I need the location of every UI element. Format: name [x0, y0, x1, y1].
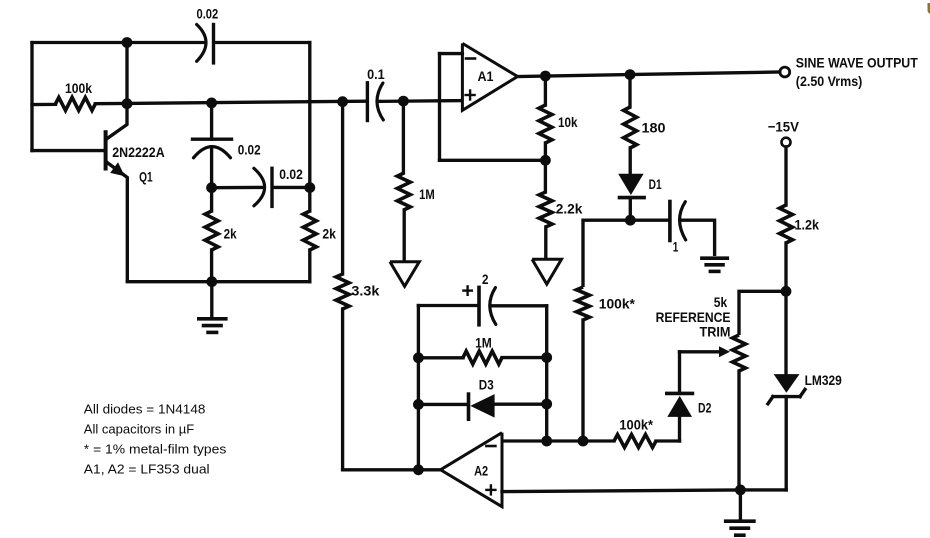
- wire cap1 to ground corner: [680, 220, 714, 256]
- potentiometer R11 5k body: [733, 335, 746, 371]
- resistor R9 100k*: [577, 287, 590, 320]
- node collector-cap junction: [122, 37, 133, 48]
- wire -15V to 1.2k: [784, 147, 787, 205]
- diode D2 triangle: [667, 396, 692, 417]
- node A2 output feedback tap: [413, 464, 424, 475]
- resistor R12 100k*: [614, 435, 656, 448]
- zener LM329 triangle: [774, 374, 800, 393]
- svg-text:LM329: LM329: [805, 373, 842, 388]
- transistor Q1 emitter lead: [106, 162, 128, 282]
- svg-text:100k: 100k: [65, 81, 92, 96]
- resistor R1 100k: [56, 97, 96, 110]
- wire 2.2k top lead: [544, 160, 547, 192]
- svg-text:2.2k: 2.2k: [556, 202, 583, 217]
- transistor Q1 collector lead: [106, 104, 127, 140]
- op-amp A2 triangle: [441, 433, 503, 507]
- wire feedback drop to series cap node: [308, 43, 311, 188]
- wire pot wiper line: [680, 350, 721, 353]
- resistor R5 1M: [397, 173, 410, 210]
- ground G1 bars: [199, 317, 226, 321]
- wire series cap left lead: [212, 186, 264, 190]
- wire 2k left bottom lead: [210, 250, 213, 282]
- svg-text:2k: 2k: [322, 227, 336, 242]
- svg-text:100k*: 100k*: [599, 297, 636, 312]
- svg-text:100k*: 100k*: [619, 418, 653, 433]
- svg-text:0.02: 0.02: [279, 167, 303, 182]
- wire D1 net to 100k* corner: [583, 220, 630, 287]
- wire reference node to LM329: [784, 291, 787, 374]
- wire A2 minus rail: [502, 439, 614, 442]
- svg-text:D2: D2: [698, 401, 712, 416]
- resistor R8 180: [624, 107, 637, 148]
- wire D3 row right: [495, 403, 547, 406]
- wire reference node to pot: [739, 291, 786, 335]
- wire A2 output: [343, 468, 441, 471]
- pot wiper arrowhead: [719, 346, 730, 357]
- capacitor C5 1 curved plate: [680, 202, 686, 240]
- wire 1M row right: [502, 356, 547, 359]
- wire 3.3k bottom lead: [341, 309, 344, 470]
- wire ground stem Q1: [210, 282, 213, 318]
- ground G4 bars: [702, 256, 727, 260]
- resistor R7 2.2k: [539, 192, 552, 227]
- capacitor C1 0.02 curved plate: [197, 25, 206, 62]
- wire wiper to D2 drop: [678, 352, 681, 394]
- svg-text:D1: D1: [649, 177, 662, 192]
- ground G5 bars: [726, 519, 754, 523]
- wire 180 top lead: [628, 75, 631, 107]
- capacitor C1 0.02 flat plate: [212, 25, 215, 63]
- node 1M left: [413, 352, 424, 363]
- svg-text:0.02: 0.02: [197, 7, 219, 22]
- svg-text:180: 180: [642, 121, 666, 136]
- svg-text:* = 1% metal-film types: * = 1% metal-film types: [84, 442, 227, 457]
- zener LM329 cathode bar: [768, 389, 805, 403]
- terminal -15V circle: [782, 138, 791, 147]
- wire pot bottom lead: [737, 371, 740, 490]
- wire ground rail to LM329 corner: [740, 488, 786, 491]
- resistor R10 1.2k: [780, 205, 793, 243]
- wire shunt cap top lead: [210, 103, 213, 139]
- node D1 cathode net: [625, 215, 636, 226]
- diode D2 cathode bar: [667, 392, 693, 396]
- wire D1 to node: [629, 198, 632, 221]
- op-amp A1 triangle: [462, 43, 517, 110]
- diode D1 cathode bar: [620, 196, 645, 200]
- capacitor C4 0.1 flat plate: [366, 83, 369, 121]
- wire feedback top row left: [418, 304, 477, 307]
- ground G2 arrow: [390, 262, 419, 287]
- wire feedback right rail: [545, 306, 548, 441]
- capacitor C2 0.02 curved plate: [194, 147, 231, 158]
- svg-text:1.2k: 1.2k: [795, 218, 820, 233]
- transistor Q1 emitter arrow: [110, 162, 125, 176]
- svg-text:0.1: 0.1: [367, 67, 385, 82]
- svg-text:A1: A1: [478, 69, 494, 84]
- svg-text:1M: 1M: [419, 187, 435, 202]
- node D3 left: [413, 399, 424, 410]
- terminal output circle: [780, 67, 790, 77]
- wire 10k top lead: [544, 76, 547, 105]
- op-amp A2 minus sign: [486, 445, 495, 448]
- svg-text:2k: 2k: [224, 227, 237, 242]
- svg-text:A1, A2 = LF353 dual: A1, A2 = LF353 dual: [84, 462, 210, 477]
- svg-text:1M: 1M: [475, 336, 492, 351]
- capacitor C2 0.02 flat plate: [193, 137, 232, 140]
- resistor R2 2k: [205, 211, 218, 250]
- svg-text:SINE WAVE OUTPUT: SINE WAVE OUTPUT: [796, 56, 919, 71]
- svg-text:All capacitors in µF: All capacitors in µF: [84, 422, 194, 437]
- svg-text:2N2222A: 2N2222A: [112, 145, 165, 160]
- node reference top: [781, 286, 792, 297]
- svg-text:1: 1: [673, 240, 679, 255]
- wire top feedback rail right segment: [215, 41, 310, 44]
- wire A1 feedback to divider: [440, 159, 546, 162]
- wire shunt cap bottom lead: [210, 148, 213, 188]
- svg-text:All diodes = 1N4148: All diodes = 1N4148: [84, 402, 206, 417]
- wire A2 plus to ground rail: [502, 490, 740, 492]
- resistor R6 10k: [539, 105, 552, 143]
- diode D3 cathode bar: [467, 394, 471, 419]
- wire top feedback rail left segment: [32, 41, 205, 44]
- node 1M right: [541, 352, 552, 363]
- svg-text:TRIM: TRIM: [700, 325, 731, 340]
- wire 1M row left: [418, 356, 463, 359]
- wire 2.2k bottom lead: [544, 227, 547, 259]
- svg-text:5k: 5k: [714, 295, 728, 310]
- wire main rail left of 100k: [32, 103, 56, 107]
- node output-180 tap: [625, 69, 636, 80]
- node shunt cap tap: [206, 98, 217, 109]
- node ground rail: [735, 485, 746, 496]
- resistor R13 1M: [463, 351, 502, 364]
- node series cap right: [304, 182, 315, 193]
- wire 180 to D1: [629, 148, 632, 174]
- wire 100k* to A2 minus rail: [581, 320, 584, 441]
- wire main rail 100k to 0.1 cap: [95, 101, 366, 104]
- svg-text:(2.50 Vrms): (2.50 Vrms): [796, 74, 863, 89]
- node A1 plus net: [398, 96, 409, 107]
- svg-text:REFERENCE: REFERENCE: [656, 310, 731, 325]
- wire feedback top row right: [490, 304, 546, 307]
- wire 0.1 cap to A1 plus input: [378, 99, 463, 103]
- wire 1M bottom lead: [403, 210, 406, 261]
- node D3 right: [541, 399, 552, 410]
- ground G3 arrow: [532, 259, 561, 284]
- node series cap left: [206, 182, 217, 193]
- svg-text:0.02: 0.02: [238, 143, 261, 158]
- node bottom rail ground tap: [206, 276, 217, 287]
- wire emitter bottom rail: [127, 280, 309, 283]
- resistor R3 2k: [303, 211, 316, 250]
- capacitor C4 0.1 curved plate: [377, 83, 383, 120]
- svg-text:3.3k: 3.3k: [351, 284, 379, 299]
- capacitor C6 2 curved plate: [490, 288, 496, 325]
- wire feedback left rail: [417, 306, 420, 470]
- label C6 plus: [463, 286, 471, 294]
- op-amp A2 plus sign: [486, 485, 495, 494]
- node A2 minus cap rail: [541, 436, 552, 447]
- wire 1.2k to reference node: [784, 243, 787, 291]
- svg-text:−15V: −15V: [768, 120, 800, 135]
- wire collector node riser: [125, 43, 128, 104]
- node output-10k tap: [540, 71, 551, 82]
- wire Q1 base stub: [32, 149, 104, 152]
- node Q1 collector: [122, 98, 133, 109]
- capacitor C5 1 flat plate: [668, 202, 672, 241]
- wire 2k left top lead: [210, 188, 213, 211]
- wire D3 row left: [418, 403, 467, 406]
- node A2 minus 100k* tap: [578, 436, 589, 447]
- wire D2 corner to 100k*: [656, 439, 680, 442]
- svg-text:10k: 10k: [558, 115, 578, 130]
- node 3.3k tap: [337, 96, 348, 107]
- wire 2k right bottom lead: [308, 250, 311, 282]
- svg-text:A2: A2: [474, 464, 488, 479]
- wire A1 output: [518, 72, 780, 77]
- op-amp A1 plus sign: [466, 91, 475, 100]
- scan artifact olive mark: [928, 3, 930, 14]
- wire LM329 to ground rail: [785, 397, 788, 490]
- wire node to cap1: [630, 219, 668, 222]
- capacitor C3 0.02 flat plate: [270, 168, 273, 206]
- node divider junction: [540, 155, 551, 166]
- op-amp A1 minus sign: [466, 57, 475, 60]
- wire A1 feedback drop: [438, 54, 441, 161]
- diode D3 triangle: [470, 394, 494, 418]
- diode D1 triangle: [618, 174, 643, 195]
- wire ground stem bottom: [739, 490, 742, 520]
- wire 1M top lead: [402, 101, 405, 173]
- svg-text:Q1: Q1: [139, 170, 153, 185]
- wire D2 anode lead: [678, 417, 681, 441]
- capacitor C3 0.02 curved plate: [254, 168, 265, 206]
- svg-text:D3: D3: [479, 378, 494, 393]
- resistor R4 3.3k: [336, 274, 349, 309]
- wire A1 minus input stub: [440, 52, 463, 55]
- wire 3.3k top lead: [341, 102, 344, 274]
- wire left rail: [30, 43, 33, 151]
- wire 10k bottom lead: [544, 143, 547, 160]
- svg-text:2: 2: [482, 272, 489, 287]
- transistor Q1 base bar: [104, 132, 108, 168]
- wire series cap right lead: [274, 186, 310, 189]
- capacitor C6 2 flat plate: [477, 287, 481, 324]
- wire 2k right top lead: [308, 188, 311, 211]
